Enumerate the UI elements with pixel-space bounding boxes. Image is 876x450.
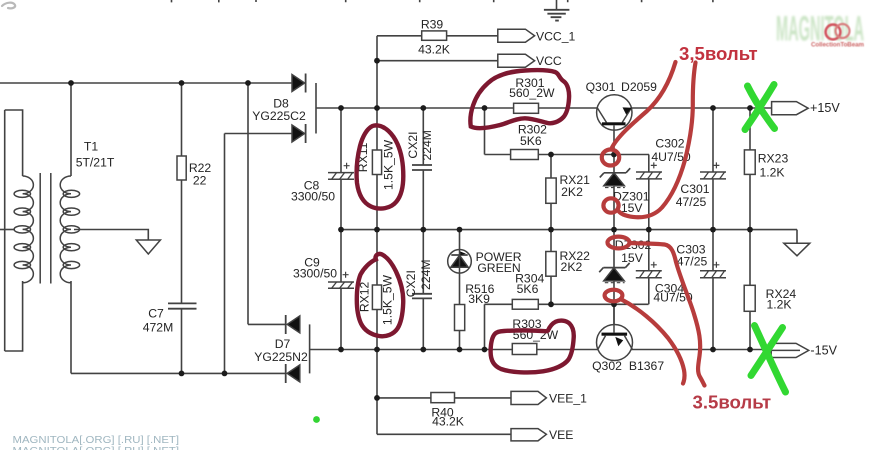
wire RX23/RX24 column <box>749 108 751 350</box>
flag VCC <box>498 54 535 67</box>
svg-text:5K6: 5K6 <box>520 134 542 148</box>
capacitor C301 (electrolytic) <box>700 172 726 179</box>
wire R302 feed vertical <box>484 108 486 155</box>
svg-text:YG225N2: YG225N2 <box>254 350 308 364</box>
wire D8 cathode join vertical <box>315 83 317 134</box>
svg-text:Q301: Q301 <box>586 80 616 94</box>
svg-text:3,5вольт: 3,5вольт <box>679 43 758 64</box>
svg-text:VCC: VCC <box>536 54 562 68</box>
resistor RX11 <box>372 150 381 175</box>
wire D8 lower anode input <box>225 133 293 135</box>
green dot <box>313 416 320 423</box>
wire C301/C303 column <box>712 108 714 350</box>
svg-text:560_2W: 560_2W <box>509 86 555 100</box>
svg-text:C302: C302 <box>655 137 684 151</box>
red ring4 (DZ302 bottom) <box>605 290 623 302</box>
wire D7 upper feed column <box>247 83 249 324</box>
green X over +15V <box>745 85 775 130</box>
resistor RX24 <box>744 285 755 311</box>
wire C304 column <box>648 230 650 305</box>
wire R22/C7 column <box>181 83 183 373</box>
zener DZ301 <box>600 168 630 177</box>
dark red blob around RX12 <box>357 254 403 336</box>
resistor R516 <box>455 305 465 331</box>
node R304 row junctions <box>548 301 554 307</box>
svg-text:15V: 15V <box>621 201 644 215</box>
svg-text:47/25: 47/25 <box>677 255 708 269</box>
watermark MAGNITOLA <box>776 10 864 49</box>
dark red blob around RX11 <box>357 125 404 208</box>
wire CX2I bottom column <box>422 230 424 350</box>
resistor R303 <box>512 344 537 355</box>
transistor Q301 <box>597 95 632 130</box>
resistor RX12 <box>372 285 381 310</box>
wire RX12 column <box>376 230 378 350</box>
resistor R302 <box>511 150 539 160</box>
wire secondary bottom lead <box>70 281 72 373</box>
top edge cropped ticks <box>172 0 713 2</box>
svg-text:Q302: Q302 <box>592 359 622 373</box>
svg-text:3300/50: 3300/50 <box>291 189 335 203</box>
diode D8 lower <box>292 125 305 142</box>
svg-text:472M: 472M <box>143 321 174 335</box>
svg-text:+15V: +15V <box>810 101 840 115</box>
capacitor C9 (electrolytic) <box>328 282 354 288</box>
node -rail junctions <box>338 347 344 353</box>
wire bottom secondary AC (to D7 lower) <box>71 372 286 374</box>
ground (right end of mid rail) <box>784 243 810 256</box>
transformer T1 primary winding <box>23 176 34 283</box>
resistor RX23 <box>744 150 755 175</box>
wire C9 column <box>340 230 342 350</box>
capacitor CX2I lower <box>412 294 432 299</box>
svg-text:D7: D7 <box>275 337 291 351</box>
node +rail junctions <box>338 105 344 111</box>
svg-text:VEE: VEE <box>549 428 573 442</box>
flag VEE <box>511 429 546 441</box>
svg-text:YG225C2: YG225C2 <box>252 109 306 123</box>
capacitor C302 (electrolytic) <box>636 172 662 179</box>
resistor R39 <box>422 31 447 40</box>
node R302 row junctions <box>548 152 554 158</box>
svg-text:5T/21T: 5T/21T <box>76 156 115 170</box>
node bottom wire junctions <box>179 371 185 377</box>
wire +unreg rail y=108 <box>316 107 772 109</box>
wire R304 feed vertical to -rail <box>484 304 486 349</box>
wire RX11 column <box>376 108 378 230</box>
svg-text:CX2I: CX2I <box>404 270 418 297</box>
wire D7 upper cathode input <box>248 323 286 325</box>
wire primary top lead <box>5 110 23 176</box>
svg-text:22: 22 <box>193 173 207 187</box>
red ring1 (DZ301 cathode) <box>602 150 619 166</box>
zener DZ302 <box>599 263 629 272</box>
wire top secondary AC (node to D8 upper anode) <box>0 82 292 84</box>
node top wire junctions <box>68 80 74 86</box>
node VEE_1 junction <box>374 395 380 401</box>
wire R304 row <box>485 303 649 305</box>
svg-text:1.2K: 1.2K <box>759 165 784 179</box>
wire VCC_1 row <box>377 35 498 37</box>
wire top ground stem <box>556 0 558 10</box>
svg-text:224M: 224M <box>419 259 433 290</box>
node mid rail junctions <box>338 227 344 233</box>
svg-text:1.5K_5W: 1.5K_5W <box>381 274 395 325</box>
diode D7 upper <box>287 316 300 333</box>
svg-text:47/25: 47/25 <box>676 195 707 209</box>
red stroke from 3,5вольт down to ring2 <box>619 63 696 218</box>
wire R302 row <box>485 154 650 156</box>
flag -15V <box>771 343 809 357</box>
resistor R304 <box>512 299 538 309</box>
svg-text:1.2K: 1.2K <box>766 298 791 312</box>
svg-text:CX2I: CX2I <box>406 131 420 158</box>
svg-text:2K2: 2K2 <box>561 185 583 199</box>
svg-text:224M: 224M <box>420 130 434 161</box>
wire D7 anode join vertical <box>309 324 311 373</box>
resistor R301 <box>514 103 539 113</box>
wire secondary center tap to ground <box>74 230 148 241</box>
svg-text:B1367: B1367 <box>629 359 664 373</box>
wire primary left loop <box>4 110 6 351</box>
resistor RX21 <box>546 178 556 203</box>
wire primary bottom lead <box>5 281 23 351</box>
wire VCC row <box>377 60 498 62</box>
resistor R22 <box>177 156 186 180</box>
transformer T1 secondary winding <box>60 176 71 283</box>
flag +15V <box>772 102 809 115</box>
wire VEE_1 row <box>377 397 511 399</box>
red curve from ring4 down <box>622 300 685 384</box>
wire DZ302 column / Q302 base <box>613 230 615 333</box>
ground (secondary center tap) <box>136 240 160 254</box>
svg-text:-15V: -15V <box>810 344 837 358</box>
wire ground stub right <box>796 230 798 244</box>
LED POWER GREEN <box>448 249 472 273</box>
ground (top, above VCC_1) <box>544 10 570 21</box>
transformer T1 core <box>40 173 51 284</box>
wire VEE row <box>377 433 511 435</box>
svg-text:VEE_1: VEE_1 <box>549 391 587 405</box>
wire RX12 column lower (to VEE corner) <box>376 350 378 435</box>
svg-text:3.5вольт: 3.5вольт <box>693 392 772 413</box>
red stroke from 3,5вольт text to ring1 <box>612 62 676 149</box>
wire RX22 column <box>550 230 552 305</box>
diode D8 upper <box>292 75 305 92</box>
svg-text:1.5K_5W: 1.5K_5W <box>382 139 396 190</box>
svg-text:RX23: RX23 <box>758 152 789 166</box>
wire CX2I top column <box>422 108 424 230</box>
svg-text:15V: 15V <box>621 251 644 265</box>
wire -15V rail y=349.5 <box>310 349 800 351</box>
capacitor C8 (electrolytic) <box>328 173 354 180</box>
wire C302 column <box>648 155 650 230</box>
svg-text:3K9: 3K9 <box>468 292 490 306</box>
svg-text:3300/50: 3300/50 <box>293 267 337 281</box>
node VCC junction <box>374 58 380 64</box>
svg-text:2K2: 2K2 <box>561 260 583 274</box>
svg-text:MAGNITOLA[.ORG] [.RU] [.NET]: MAGNITOLA[.ORG] [.RU] [.NET] <box>13 445 180 450</box>
wire mid ground rail y=229.6 <box>341 229 797 231</box>
red ring2 (below DZ301) <box>603 198 618 212</box>
wire RX11 column upper (VCC_1 corner to +rail) <box>376 36 378 108</box>
capacitor C303 (electrolytic) <box>700 271 726 278</box>
watermark logo circles <box>826 24 850 39</box>
svg-text:MAGNITOLA[.ORG] [.RU] [.NET]: MAGNITOLA[.ORG] [.RU] [.NET] <box>13 434 180 446</box>
resistor RX22 <box>546 252 556 277</box>
svg-text:D2059: D2059 <box>621 80 657 94</box>
green X over -15V <box>751 326 786 393</box>
dark red blob around R303 <box>491 321 574 373</box>
svg-text:CollectionToBeam: CollectionToBeam <box>811 42 864 49</box>
capacitor C304 (electrolytic) <box>636 271 662 278</box>
svg-text:VCC_1: VCC_1 <box>536 29 576 43</box>
wire secondary top lead <box>70 83 72 176</box>
wire D8 lower feed column <box>224 134 226 374</box>
dark red blob around R301 <box>470 70 569 128</box>
wire C8 column <box>340 108 342 230</box>
transistor Q302 <box>597 325 633 361</box>
wire LED / R516 column <box>459 230 461 350</box>
svg-text:43.2K: 43.2K <box>418 42 450 56</box>
top-left gray scribble <box>2 3 15 9</box>
capacitor C7 <box>168 303 197 308</box>
flag VEE_1 <box>511 391 546 404</box>
flag VCC_1 <box>498 29 535 42</box>
red curve from ring3 to 3.5вольт <box>630 243 705 386</box>
wire RX21 column <box>550 155 552 230</box>
diode D7 lower <box>287 365 300 382</box>
svg-text:R39: R39 <box>421 18 444 32</box>
svg-text:5K6: 5K6 <box>517 282 539 296</box>
svg-text:43.2K: 43.2K <box>432 415 464 429</box>
svg-text:C7: C7 <box>148 307 164 321</box>
svg-text:T1: T1 <box>84 140 98 154</box>
wire Q301 base / DZ301 column <box>613 125 615 229</box>
wire primary tap <box>0 229 15 231</box>
capacitor CX2I upper <box>412 165 432 170</box>
resistor R40 <box>431 393 455 403</box>
red ring3 (DZ302 top) <box>608 237 630 249</box>
